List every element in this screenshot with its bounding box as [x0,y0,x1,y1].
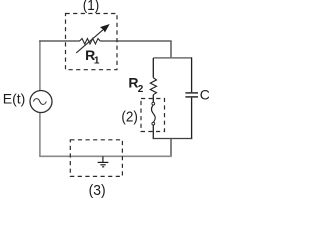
svg-text:E(t): E(t) [3,90,26,106]
wire R2 to top terminal [152,95,154,103]
ground stub [102,156,104,162]
wire top rail right segment [100,40,171,42]
svg-text:(3): (3) [89,182,106,198]
wire parallel bottom rail [153,138,193,140]
dashed box (2) [141,99,165,132]
R1 wiper arrow shaft [76,28,105,53]
wire top rail left segment [39,40,79,42]
wire bottom rail [39,155,172,157]
source E(t) circle [30,91,52,113]
source sine wave [33,99,46,105]
wire C branch lower [191,98,193,140]
dashed box (3) [70,140,122,177]
wire R2 branch upper [152,58,154,78]
dashed box (1) [66,14,118,70]
resistor R1 zigzag [79,39,100,45]
nonlinear element S-curve [151,105,155,122]
capacitor C top plate [185,92,198,94]
wire parallel top rail [153,57,191,59]
wire bottom terminal to bottom rail [152,125,154,139]
ground bar 1 [98,161,109,163]
svg-text:2: 2 [138,84,144,95]
capacitor C bottom plate [185,96,198,98]
svg-text:1: 1 [94,56,100,67]
svg-text:(2): (2) [121,109,137,126]
svg-text:C: C [200,86,209,102]
svg-text:(1): (1) [83,0,99,14]
terminal node bottom circle [152,122,155,125]
ground bar 2 [100,164,105,166]
ground bar 3 [102,166,104,168]
wire left vertical bottom (source to bottom rail) [39,113,41,157]
R1 wiper arrowhead [100,24,110,33]
wire top descender [170,40,172,58]
wire left vertical top (source to top rail) [39,40,41,90]
wire C branch upper [191,57,193,92]
terminal node top circle [152,102,155,105]
wire bottom descender [170,139,172,157]
resistor R2 zigzag [150,78,156,95]
